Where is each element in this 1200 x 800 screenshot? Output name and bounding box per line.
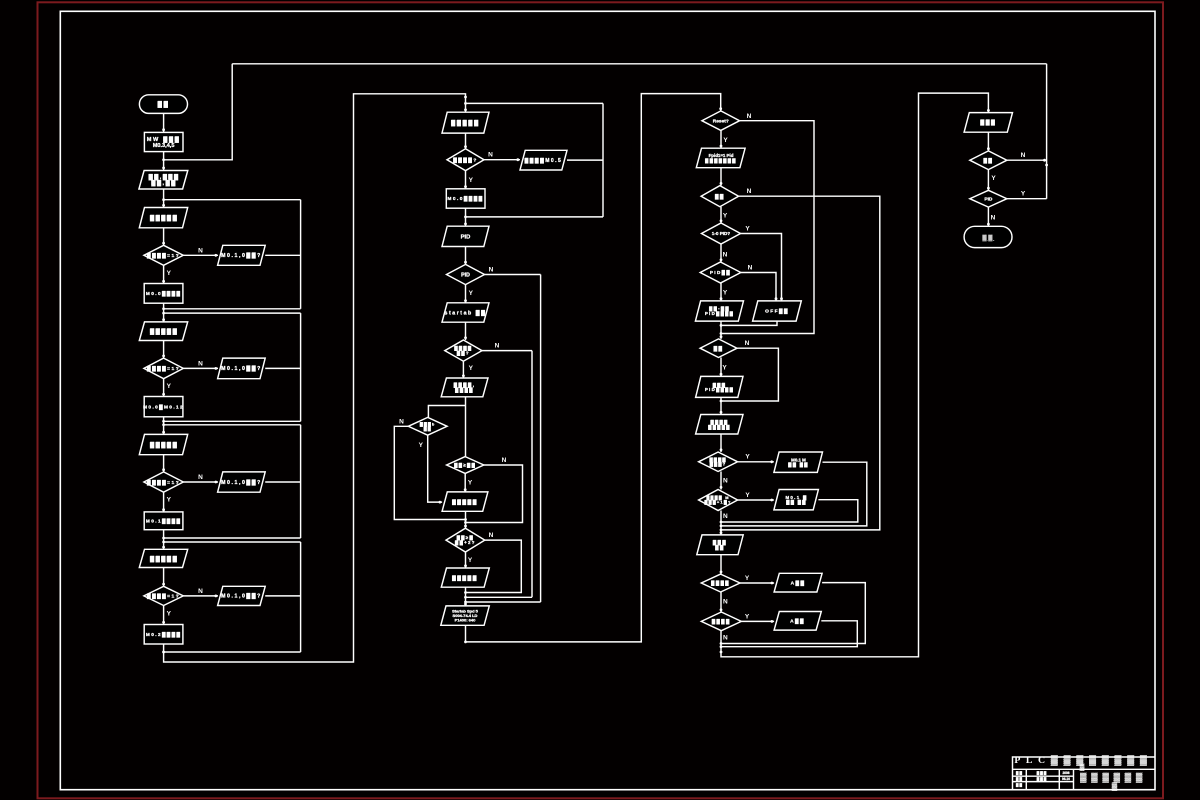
svg-text:startab ▓▓: startab ▓▓ bbox=[445, 309, 487, 316]
svg-text:PID: PID bbox=[461, 234, 471, 240]
input parallelogram group 2: 读停止按钮 bbox=[139, 322, 187, 341]
wire: c2 group1 right loop vertical bbox=[602, 103, 604, 216]
wire: group 4 loop top return bbox=[164, 541, 301, 543]
svg-text:N: N bbox=[723, 478, 728, 485]
svg-text:▓▓: ▓▓ bbox=[982, 234, 994, 241]
wire: c3-PH to c3-DF bbox=[720, 434, 722, 452]
wire: group 4 right loop vertical bbox=[300, 542, 302, 652]
title block inner row line 2 bbox=[1013, 781, 1074, 783]
wire: reset loop left vertical down to column 1 bbox=[164, 64, 233, 160]
wire: c3-PM out right, down, return bbox=[721, 621, 857, 647]
decision diamond group 2: 停止信号=1? bbox=[144, 358, 183, 379]
wire: c2-D1 Y to c2-R1 bbox=[465, 171, 467, 189]
svg-text:N: N bbox=[399, 418, 404, 425]
svg-text:1-0 PID?: 1-0 PID? bbox=[712, 231, 731, 236]
svg-text:▓▓: ▓▓ bbox=[1016, 777, 1023, 781]
parallelogram c3-PG: running PID params bbox=[696, 376, 743, 397]
svg-text:N: N bbox=[723, 635, 728, 642]
svg-text:▓▓,▓▓▓▓▓,▓▓: ▓▓,▓▓▓▓▓,▓▓ bbox=[149, 174, 180, 187]
N parallelogram group 2: M0.1,0断电? bbox=[218, 358, 266, 379]
process R0: init M0.3,4,5 bbox=[144, 132, 183, 151]
wire: c3-DD N right and down into c3-PF bbox=[741, 273, 776, 301]
svg-text:Y: Y bbox=[991, 175, 996, 182]
svg-text:N: N bbox=[198, 360, 203, 367]
wire: parallelogram to decision group 2 bbox=[163, 341, 165, 359]
decision c3-DE: running? bbox=[700, 339, 737, 358]
svg-text:▓▓▓: ▓▓▓ bbox=[1037, 771, 1047, 775]
wire: c2-P5 down through merges to c2-D6 bbox=[465, 511, 467, 528]
terminal: 结束 (end) bbox=[964, 226, 1012, 247]
svg-text:▓▓▓▓▓: ▓▓▓▓▓ bbox=[150, 555, 178, 562]
svg-text:06.10: 06.10 bbox=[1062, 777, 1070, 781]
svg-text:Y: Y bbox=[468, 557, 473, 564]
svg-text:M0.1▓▓▓▓: M0.1▓▓▓▓ bbox=[146, 517, 181, 524]
input parallelogram P1: read temp/humidity bbox=[139, 171, 188, 190]
wire: main line into group 4 input bbox=[163, 530, 165, 550]
svg-text:▓: ▓ bbox=[1080, 763, 1085, 771]
svg-text:PID: PID bbox=[461, 272, 470, 278]
input parallelogram group 4: 读报警按钮 bbox=[139, 549, 187, 567]
decision c3-DC: 1-0 PID? bbox=[702, 223, 741, 244]
parallelogram c3-PF: OFF hold bbox=[753, 301, 802, 321]
wire: N branch group 1 bbox=[183, 254, 218, 256]
svg-text:▓▓▓▓=1?: ▓▓▓▓=1? bbox=[147, 593, 180, 600]
wire: c4-DJ Y to c4-DK bbox=[987, 170, 989, 191]
svg-text:N: N bbox=[745, 340, 750, 347]
svg-text:Y: Y bbox=[745, 454, 750, 461]
title block outline bbox=[1013, 757, 1156, 790]
svg-text:N: N bbox=[198, 247, 203, 254]
svg-text:Y: Y bbox=[469, 365, 474, 372]
wire: c3-PI out right, down, return bbox=[721, 462, 867, 526]
wire: c3-PA to c3-DB bbox=[720, 168, 722, 186]
svg-text:M0.2▓▓▓▓: M0.2▓▓▓▓ bbox=[146, 631, 181, 638]
wire: c3-DF N to c3-DG bbox=[720, 472, 722, 490]
svg-text:▓▓: ▓▓ bbox=[1016, 771, 1023, 775]
wire: c3-PL out right, down, return bbox=[721, 583, 865, 644]
input parallelogram c2-P3: startab write bbox=[442, 303, 489, 322]
wire: main line into group 2 input bbox=[163, 303, 165, 322]
svg-text:▓▓▓▓=1?: ▓▓▓▓=1? bbox=[147, 252, 180, 259]
svg-text:▓▓▓▓▓: ▓▓▓▓▓ bbox=[452, 499, 478, 506]
svg-text:Y: Y bbox=[419, 442, 424, 449]
process rectangle group 1: M0.0置位自锁 bbox=[144, 284, 183, 304]
wire: c2-D2 N loop vertical bbox=[540, 275, 542, 603]
wire: N parallelogram to loop vertical group 1 bbox=[265, 254, 300, 256]
svg-text:Y: Y bbox=[469, 177, 474, 184]
parallelogram c3-PI: M0.1 set alarm bbox=[774, 452, 823, 472]
svg-text:▓▓▓▓,▓▓▓▓: ▓▓▓▓,▓▓▓▓ bbox=[454, 383, 476, 394]
svg-text:N: N bbox=[991, 215, 996, 222]
svg-text:▓▓▓▓?: ▓▓▓▓? bbox=[453, 156, 478, 163]
wire: group 3 loop bottom return bbox=[164, 537, 301, 539]
svg-text:M0.1,0▓▓?: M0.1,0▓▓? bbox=[221, 365, 262, 372]
wire: c2 group1 bottom return bbox=[466, 216, 604, 218]
wire: N parallelogram to loop vertical group 2 bbox=[265, 367, 300, 369]
decision c3-DD: PID running? bbox=[700, 262, 741, 283]
process rectangle c2-R1: M0.0 set/clear bbox=[446, 189, 485, 208]
decision c3-DB: manual? bbox=[701, 186, 739, 207]
wire: c2-D3 N branch bbox=[482, 350, 532, 352]
svg-text:Y: Y bbox=[469, 290, 474, 297]
decision diamond group 1: 启动信号=1? bbox=[144, 245, 183, 265]
wire: c3-PF bottom return to main bbox=[721, 321, 777, 325]
wire: main line into group 3 input bbox=[163, 417, 165, 435]
title block inner row line 1 bbox=[1013, 775, 1074, 777]
terminal: 开始 (start) bbox=[139, 95, 187, 114]
svg-text:2008: 2008 bbox=[1062, 771, 1069, 775]
wire: c2-P2 to c2-D2 bbox=[465, 247, 467, 265]
svg-text:▓▓: ▓▓ bbox=[714, 345, 724, 352]
wire: N parallelogram to loop vertical group 4 bbox=[265, 595, 300, 597]
decision c3-DI: water temp alarm? bbox=[701, 612, 741, 631]
svg-text:Y: Y bbox=[167, 610, 172, 617]
input parallelogram c2-P4: scaling display bbox=[441, 378, 488, 397]
wire: group 2 right loop vertical bbox=[300, 313, 302, 421]
svg-text:Y: Y bbox=[745, 226, 750, 233]
svg-text:▓▓: ▓▓ bbox=[158, 101, 170, 108]
decision c4-DK: PID end? bbox=[970, 190, 1007, 207]
parallelogram c3-PH: end run params bbox=[696, 415, 743, 435]
decision c2-D1: comms ok? bbox=[447, 149, 484, 171]
svg-text:▓▓▓▓▓: ▓▓▓▓▓ bbox=[452, 575, 478, 582]
wire: N branch group 2 bbox=[183, 367, 218, 369]
svg-text:N: N bbox=[723, 251, 728, 258]
wire: group 4 loop bottom return bbox=[164, 651, 301, 653]
svg-text:N: N bbox=[747, 113, 752, 120]
svg-text:Y: Y bbox=[723, 213, 728, 220]
svg-text:M0.0▓▓▓▓: M0.0▓▓▓▓ bbox=[146, 290, 181, 297]
wire: Y branch down group 2 bbox=[163, 379, 165, 397]
wire: c2-N1 to right loop vertical bbox=[567, 159, 603, 161]
wire: c3-DF Y to c3-PI bbox=[738, 461, 774, 463]
svg-text:▓▓▓▓M0.5: ▓▓▓▓M0.5 bbox=[525, 157, 563, 164]
parallelogram c3-PL: A alarm bbox=[774, 573, 822, 592]
svg-text:Y: Y bbox=[723, 137, 728, 144]
wire: group 1 right loop vertical bbox=[300, 200, 302, 309]
wire: c4-DJ N to reset riser bbox=[1007, 159, 1047, 161]
decision c3-DA: Reset? bbox=[702, 111, 740, 130]
wire: c3-PK to c3-DH bbox=[720, 555, 722, 574]
wire: c2-D5 Y to c2-P5 bbox=[464, 473, 466, 492]
svg-text:▓: ▓ bbox=[1112, 781, 1118, 791]
svg-text:Y: Y bbox=[745, 613, 750, 620]
svg-text:M0.1,0▓▓?: M0.1,0▓▓? bbox=[221, 593, 262, 600]
svg-text:Y: Y bbox=[167, 383, 172, 390]
title block column line b bbox=[1058, 769, 1060, 789]
wire: c2-D1 N branch bbox=[484, 159, 520, 161]
N parallelogram group 4: M0.1,0断电? bbox=[218, 586, 266, 605]
decision diamond group 3: 解除信号=1? bbox=[144, 472, 183, 492]
wire: start to init block bbox=[163, 113, 165, 132]
wire: c2-D2 Y to c2-P3 bbox=[465, 285, 467, 303]
wire: N branch group 3 bbox=[183, 481, 218, 483]
svg-text:M0.1,0▓▓?: M0.1,0▓▓? bbox=[221, 479, 262, 486]
svg-text:▓▓≥▓▓▓+2?: ▓▓≥▓▓▓+2? bbox=[455, 535, 476, 546]
decision c3-DH: over-temp alarm? bbox=[701, 574, 740, 592]
svg-text:▓▓: ▓▓ bbox=[715, 193, 725, 200]
title block row line under title bbox=[1013, 768, 1156, 770]
process rectangle group 3: M0.1复位清零 bbox=[144, 512, 183, 530]
svg-text:N: N bbox=[489, 266, 494, 273]
svg-text:N: N bbox=[1021, 152, 1026, 159]
title block column line a bbox=[1025, 769, 1027, 789]
wire: N parallelogram to loop vertical group 3 bbox=[265, 481, 300, 483]
svg-text:▓▓▓▓▓: ▓▓▓▓▓ bbox=[150, 328, 178, 335]
input parallelogram c2-P2: PID bbox=[442, 226, 489, 246]
svg-text:Y: Y bbox=[167, 497, 172, 504]
wire: Y branch down group 4 bbox=[163, 606, 165, 625]
svg-text:M0.0▓▓▓▓: M0.0▓▓▓▓ bbox=[447, 195, 483, 202]
process rectangle group 4: M0.2置位清零 bbox=[144, 625, 183, 645]
wire: c3-DE Y to c3-PG bbox=[720, 358, 722, 377]
svg-text:Startab Spd 5S004-74.4 LDP1400: Startab Spd 5S004-74.4 LDP1400: 640 bbox=[452, 609, 479, 623]
decision c2-DL: heater valve? bbox=[408, 417, 447, 435]
wire: c2-P1 to c2-D1 bbox=[465, 133, 467, 149]
parallelogram c3-PK: mid value transfer bbox=[697, 535, 743, 555]
wire: Y branch down group 3 bbox=[163, 492, 165, 512]
wire: c2-D6 N loop right and down bbox=[466, 540, 522, 592]
svg-text:M0.1 M▓▓ ▓▓: M0.1 M▓▓ ▓▓ bbox=[788, 457, 809, 468]
svg-text:▓▓▓▓▓: ▓▓▓▓▓ bbox=[150, 442, 178, 449]
wire: column 3 bottom bus to column 4 riser bbox=[721, 93, 988, 657]
svg-text:N: N bbox=[488, 152, 493, 159]
svg-text:N: N bbox=[198, 588, 203, 595]
wire: c4-DK N to end terminal bbox=[987, 207, 989, 226]
wire: branch left to c2-DL bbox=[428, 406, 465, 418]
svg-text:M0.1 ▓▓▓ ▓▓: M0.1 ▓▓▓ ▓▓ bbox=[785, 495, 807, 506]
svg-text:Y: Y bbox=[723, 290, 728, 297]
decision c3-DF: temp below lower limit? bbox=[699, 452, 738, 472]
decision c4-DJ: continue? bbox=[970, 151, 1007, 170]
wire: c2-D2 N branch to tall vertical bbox=[485, 274, 541, 276]
decision diamond group 4: 报警信号=1? bbox=[144, 586, 183, 605]
parallelogram c3-PA: Fpid init bbox=[696, 148, 745, 168]
wire: reset riser vertical bbox=[1046, 64, 1048, 199]
decision c2-D2: PID? bbox=[447, 264, 485, 284]
N parallelogram group 1: M0.1,0断电? bbox=[218, 245, 266, 265]
input parallelogram group 3: 读解除按钮 bbox=[139, 434, 187, 454]
wire: c3-PJ out right, down, return bbox=[721, 500, 858, 522]
wire: c2-DL Y down and right into c2-P5 bbox=[428, 435, 442, 502]
wire: N branch group 4 bbox=[183, 595, 218, 597]
svg-text:N: N bbox=[747, 188, 752, 195]
parallelogram c3-PE: bumpless switch bbox=[695, 301, 743, 321]
wire: group 3 right loop vertical bbox=[300, 425, 302, 538]
decision c3-DG: humidity below limit? bbox=[699, 490, 738, 511]
wire: c3-DB N loop far right and down bbox=[721, 196, 880, 530]
decision c2-D6: temp >= set+2? bbox=[446, 528, 485, 552]
svg-text:N: N bbox=[489, 532, 494, 539]
decision c2-D3: data valid? bbox=[445, 340, 482, 361]
parallelogram c3-PJ: M0.1 alarm reset bbox=[774, 490, 819, 510]
wire: c3-DI Y to c3-PM bbox=[741, 620, 774, 622]
output parallelogram c2-P7: startab spd data bbox=[441, 606, 490, 625]
wire: group 3 loop top return bbox=[164, 424, 301, 426]
wire: Y branch down group 1 bbox=[163, 265, 165, 283]
svg-text:Y: Y bbox=[167, 270, 172, 277]
svg-text:N: N bbox=[198, 474, 203, 481]
wire: main line into group 1 input bbox=[163, 189, 165, 208]
wire: c2-DL N loop out left and down bbox=[394, 426, 465, 519]
svg-text:OFF▓▓: OFF▓▓ bbox=[765, 308, 789, 315]
wire: column 2 bottom bus to column 3 riser bbox=[466, 94, 721, 642]
process rectangle group 2: M0.0复M0.12 bbox=[144, 397, 183, 417]
input parallelogram c2-P1: sample data bbox=[442, 112, 489, 133]
wire: c3-DG Y to c3-PJ bbox=[738, 499, 774, 501]
wire: c4-DK Y right to reset riser bbox=[1007, 198, 1047, 200]
wire: c3-DD Y to c3-PE bbox=[720, 283, 722, 301]
svg-text:Y: Y bbox=[468, 480, 473, 487]
wire: c4-PN to c4-DJ bbox=[987, 132, 989, 151]
wire: group 2 loop top return bbox=[164, 312, 301, 314]
svg-text:Y: Y bbox=[722, 364, 727, 371]
wire: group 2 loop bottom return bbox=[164, 420, 301, 422]
wire: c2-R1 down to c2-P2 bbox=[465, 208, 467, 226]
svg-text:Reset?: Reset? bbox=[713, 118, 729, 124]
input parallelogram group 1: 读启动按钮 bbox=[139, 208, 187, 228]
title block column line c bbox=[1073, 769, 1075, 789]
wire: c2-P3 to c2-D3 bbox=[465, 322, 467, 340]
svg-text:▓▓: ▓▓ bbox=[983, 157, 993, 164]
svg-text:▓▓: ▓▓ bbox=[1016, 783, 1023, 787]
svg-text:▓▓▓: ▓▓▓ bbox=[1037, 777, 1047, 781]
svg-text:N: N bbox=[723, 598, 728, 605]
svg-text:▓▓▓▓=1?: ▓▓▓▓=1? bbox=[147, 365, 180, 372]
svg-text:▓▓▓▓▓▓?: ▓▓▓▓▓▓? bbox=[454, 346, 472, 357]
wire: c2-D6 Y to c2-P6 bbox=[465, 552, 467, 568]
svg-text:N: N bbox=[748, 265, 753, 272]
svg-text:▓▓▓▓ M▓▓▓+1▓?: ▓▓▓▓ M▓▓▓+1▓? bbox=[705, 495, 732, 505]
N parallelogram group 3: M0.1,0断电? bbox=[218, 472, 266, 492]
svg-text:Y: Y bbox=[745, 575, 750, 582]
svg-text:A▓▓: A▓▓ bbox=[791, 579, 806, 586]
svg-text:Fpid1=1 Pid▓▓▓▓▓▓▓: Fpid1=1 Pid▓▓▓▓▓▓▓ bbox=[705, 153, 737, 164]
wire: parallelogram to decision group 1 bbox=[163, 228, 165, 246]
svg-text:N: N bbox=[723, 513, 728, 520]
svg-text:M0.0▓M0.12: M0.0▓M0.12 bbox=[143, 403, 184, 410]
N parallelogram c2-N1: retry comms bbox=[520, 150, 567, 170]
svg-text:N: N bbox=[502, 457, 507, 464]
wire: c3-DE N loop right down and return bbox=[721, 348, 778, 401]
svg-text:▓▓-▓▓PID▓▓▓▓: ▓▓-▓▓PID▓▓▓▓ bbox=[705, 306, 734, 317]
wire: c3-PG to c3-PH bbox=[720, 397, 722, 414]
wire: parallelogram to decision group 3 bbox=[163, 455, 165, 472]
wire: parallelogram to decision group 4 bbox=[163, 568, 165, 587]
wire: c2-D3 N loop vertical bbox=[531, 351, 533, 598]
wire: c2-D3 Y to c2-P4 bbox=[462, 361, 464, 378]
parallelogram c4-PN: run data bbox=[964, 113, 1012, 133]
wire: c2-P4 main vertical down to c2-D5 bbox=[465, 397, 467, 457]
wire: column 1 bottom bus to column 2 riser bbox=[164, 94, 466, 662]
wire: c2 merge returns above c2-P7 bbox=[465, 587, 467, 606]
svg-text:A▓▓: A▓▓ bbox=[790, 618, 805, 625]
decision c2-D5: humidity >= set? bbox=[447, 457, 484, 474]
wire: c2-D5 N loop right and down bbox=[466, 465, 523, 523]
svg-text:▓▓▓: ▓▓▓ bbox=[980, 119, 996, 126]
svg-text:Y: Y bbox=[1021, 191, 1026, 198]
svg-text:N: N bbox=[495, 343, 500, 350]
wire: group 1 loop top return bbox=[164, 199, 301, 201]
wire: c3-DA Y to c3-PA bbox=[720, 130, 722, 148]
svg-text:▓▓▓▓=1?: ▓▓▓▓=1? bbox=[147, 479, 180, 486]
wire: c3-DA N loop right, down, and return bbox=[721, 121, 814, 334]
wire: c3-DB Y to c3-DC bbox=[720, 207, 722, 223]
svg-text:▓▓▓▓▓: ▓▓▓▓▓ bbox=[451, 120, 480, 127]
wire: c3-DH Y to c3-PL bbox=[740, 582, 774, 584]
wire: group 1 loop bottom return bbox=[164, 308, 301, 310]
svg-text:Y: Y bbox=[745, 492, 750, 499]
svg-text:▓▓▓▓▓▓▓?: ▓▓▓▓▓▓▓? bbox=[709, 457, 726, 468]
svg-text:M0.1,0▓▓?: M0.1,0▓▓? bbox=[221, 252, 262, 259]
svg-text:▓▓▓▓▓▓▓▓▓: ▓▓▓▓▓▓▓▓▓ bbox=[708, 420, 731, 431]
parallelogram c3-PM: A alarm 2 bbox=[774, 612, 821, 631]
wire: c3-PE down to c3-DE through merges bbox=[720, 321, 722, 339]
wire: c3-DH N to c3-DI bbox=[720, 592, 722, 612]
wire: c3-DG N down through merges to c3-PK bbox=[720, 511, 722, 535]
svg-text:▓▓▓▓▓: ▓▓▓▓▓ bbox=[150, 215, 178, 222]
wire: c3-DC N to c3-DD bbox=[720, 244, 722, 262]
wire: global reset loop top horizontal bbox=[232, 63, 1046, 65]
svg-text:PID: PID bbox=[984, 196, 993, 202]
wire: c2 wait-loop top return bbox=[466, 102, 604, 104]
wire: R0 down to P1 with reset join bbox=[163, 152, 165, 171]
input parallelogram c2-P6: heater start bbox=[441, 568, 489, 587]
wire: c3-DC Y right and down into c3-PF bbox=[741, 234, 782, 301]
input parallelogram c2-P5: humidifier start bbox=[442, 492, 488, 511]
